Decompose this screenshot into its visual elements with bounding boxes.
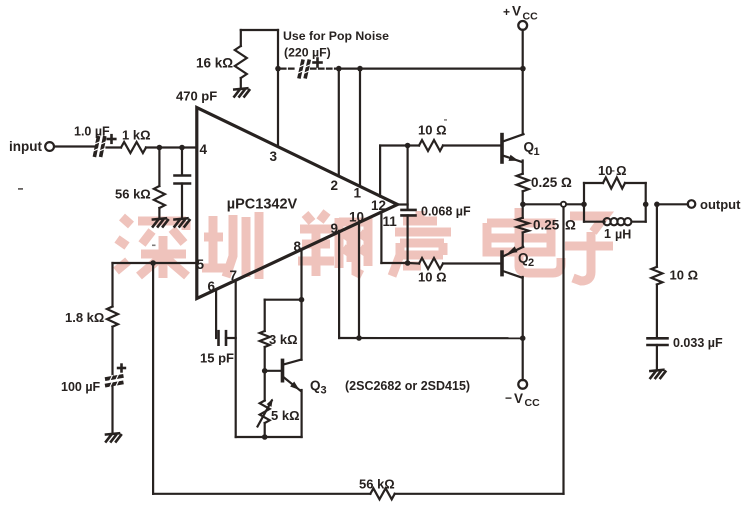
svg-text:+: +	[503, 5, 510, 19]
svg-text:Q: Q	[518, 251, 529, 266]
svg-text:Q: Q	[524, 140, 535, 155]
svg-text:Ω: Ω	[565, 218, 576, 233]
svg-text:(220 µF): (220 µF)	[284, 46, 331, 60]
svg-text:1.8 kΩ: 1.8 kΩ	[65, 310, 104, 325]
svg-text:1.0 µF: 1.0 µF	[74, 125, 110, 139]
svg-text:µH: µH	[615, 228, 631, 242]
svg-text:0.033 µF: 0.033 µF	[673, 336, 723, 350]
svg-text:4: 4	[200, 142, 208, 157]
svg-text:15 pF: 15 pF	[200, 351, 234, 366]
svg-text:1: 1	[354, 186, 362, 201]
svg-text:10 Ω: 10 Ω	[418, 270, 447, 285]
svg-text:Q: Q	[310, 378, 321, 393]
svg-text:1 kΩ: 1 kΩ	[122, 128, 151, 143]
svg-text:input: input	[9, 139, 42, 154]
svg-text:2: 2	[528, 257, 534, 269]
svg-text:Use for Pop Noise: Use for Pop Noise	[283, 29, 389, 43]
svg-text:11: 11	[383, 214, 398, 229]
svg-text:(2SC2682 or 2SD415): (2SC2682 or 2SD415)	[345, 379, 470, 393]
svg-text:3: 3	[270, 149, 278, 164]
svg-text:56 kΩ: 56 kΩ	[359, 477, 395, 492]
svg-text:5 kΩ: 5 kΩ	[271, 408, 300, 423]
svg-text:V: V	[512, 4, 521, 19]
svg-text:−: −	[505, 391, 512, 405]
svg-text:1: 1	[534, 146, 540, 158]
svg-text:output: output	[700, 197, 741, 212]
svg-text:470 pF: 470 pF	[176, 89, 217, 104]
svg-text:3 kΩ: 3 kΩ	[269, 332, 298, 347]
svg-text:5: 5	[197, 257, 205, 272]
svg-text:3: 3	[321, 385, 327, 397]
svg-text:CC: CC	[525, 397, 541, 409]
svg-text:2: 2	[331, 178, 339, 193]
svg-text:12: 12	[371, 198, 386, 213]
svg-text:10: 10	[349, 210, 364, 225]
svg-text:1: 1	[604, 227, 611, 241]
svg-text:10 Ω: 10 Ω	[418, 123, 447, 138]
svg-text:0.068 µF: 0.068 µF	[421, 205, 471, 219]
svg-text:0.25: 0.25	[533, 218, 560, 233]
svg-text:6: 6	[208, 279, 216, 294]
svg-text:16 kΩ: 16 kΩ	[196, 56, 233, 71]
svg-text:100 µF: 100 µF	[61, 380, 101, 394]
svg-text:8: 8	[294, 239, 302, 254]
svg-text:V: V	[514, 391, 523, 406]
svg-text:10 Ω: 10 Ω	[670, 268, 699, 283]
svg-text:µPC1342V: µPC1342V	[227, 197, 298, 213]
svg-text:56 kΩ: 56 kΩ	[115, 187, 151, 202]
svg-text:0.25 Ω: 0.25 Ω	[531, 175, 572, 190]
svg-text:9: 9	[331, 221, 339, 236]
